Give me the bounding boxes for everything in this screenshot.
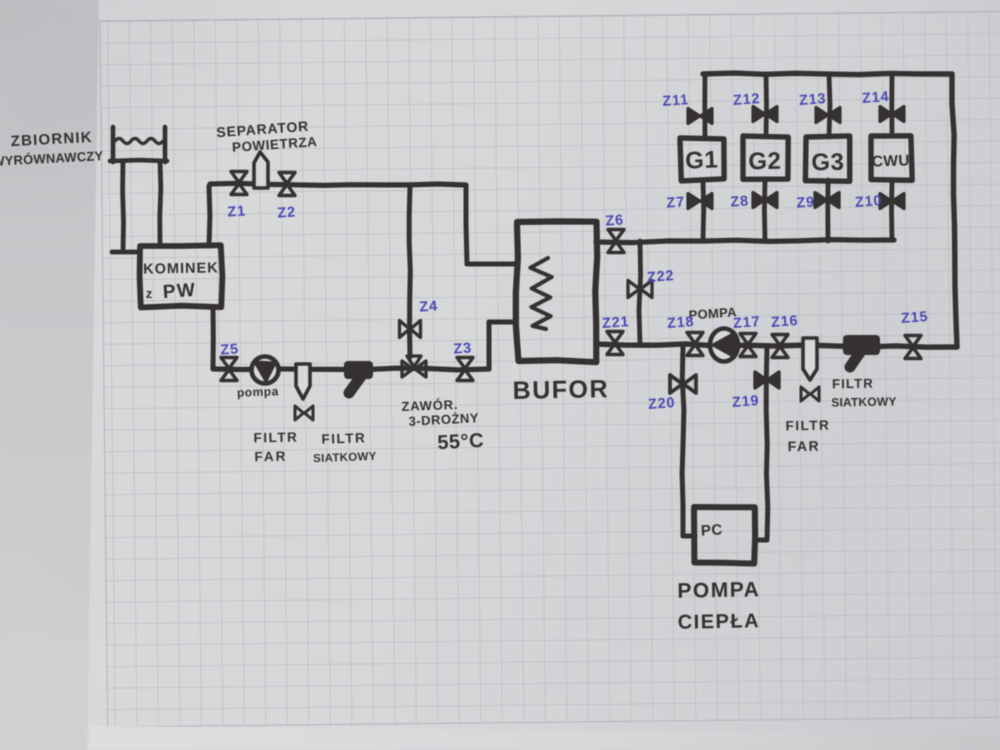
svg-text:Z21: Z21 xyxy=(602,314,630,332)
svg-text:Z9: Z9 xyxy=(796,194,816,211)
svg-text:CIEPŁA: CIEPŁA xyxy=(678,610,761,633)
svg-text:Z13: Z13 xyxy=(799,91,827,109)
svg-text:Z19: Z19 xyxy=(732,393,760,411)
svg-text:Z1: Z1 xyxy=(227,203,247,220)
svg-text:BUFOR: BUFOR xyxy=(512,375,609,405)
svg-text:FILTR: FILTR xyxy=(832,376,874,392)
svg-text:Z16: Z16 xyxy=(771,313,799,331)
svg-text:PW: PW xyxy=(162,280,197,303)
svg-text:Z5: Z5 xyxy=(220,341,240,358)
svg-text:Z17: Z17 xyxy=(733,314,761,332)
svg-text:Z18: Z18 xyxy=(667,314,695,332)
svg-text:Z22: Z22 xyxy=(647,268,675,286)
svg-text:Z11: Z11 xyxy=(662,92,690,110)
svg-text:G3: G3 xyxy=(811,149,844,177)
svg-text:55°C: 55°C xyxy=(437,430,485,454)
svg-text:Z3: Z3 xyxy=(453,340,473,357)
svg-text:Z2: Z2 xyxy=(277,204,297,221)
svg-text:pompa: pompa xyxy=(237,384,279,399)
svg-text:Z6: Z6 xyxy=(605,212,625,229)
svg-text:SIATKOWY: SIATKOWY xyxy=(313,451,377,465)
svg-text:Z10: Z10 xyxy=(855,193,883,211)
svg-text:G1: G1 xyxy=(685,146,719,174)
svg-text:FAR: FAR xyxy=(254,449,287,465)
svg-text:Z20: Z20 xyxy=(648,395,676,413)
svg-text:POMPA: POMPA xyxy=(677,578,760,602)
svg-text:FILTR: FILTR xyxy=(785,418,830,434)
svg-text:FAR: FAR xyxy=(788,438,821,455)
svg-text:Z15: Z15 xyxy=(901,309,929,327)
svg-text:Z4: Z4 xyxy=(419,298,439,315)
svg-text:CWU: CWU xyxy=(872,152,910,170)
svg-text:Z8: Z8 xyxy=(730,193,750,210)
svg-text:PC: PC xyxy=(700,521,723,539)
svg-text:KOMINEK: KOMINEK xyxy=(143,260,219,277)
svg-text:Z7: Z7 xyxy=(666,194,686,211)
svg-text:Z14: Z14 xyxy=(862,89,890,107)
svg-text:SIATKOWY: SIATKOWY xyxy=(831,394,897,409)
svg-text:Z12: Z12 xyxy=(733,91,761,109)
svg-text:FILTR: FILTR xyxy=(321,430,366,447)
svg-text:G2: G2 xyxy=(748,148,781,176)
svg-text:z: z xyxy=(146,286,153,301)
svg-text:FILTR: FILTR xyxy=(253,430,298,446)
